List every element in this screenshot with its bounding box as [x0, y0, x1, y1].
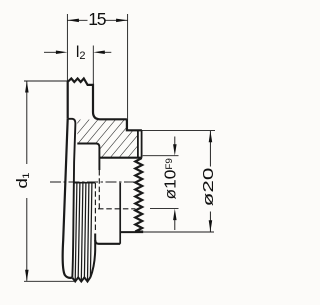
svg-text:15: 15: [88, 9, 106, 29]
l2 right arrow tail: [104, 51, 112, 53]
dia20 arrow down: [209, 220, 213, 232]
15 dimension line left segment: [67, 19, 87, 21]
skirt inner right edge: [90, 234, 95, 278]
dia10F9 top extension line: [143, 155, 179, 157]
d1 dimension line upper segment: [26, 82, 28, 165]
d1 arrow down: [25, 270, 29, 282]
flange front-left step and inner grip contour: [68, 119, 76, 277]
hatch bottom edge with corner to bore wall: [77, 144, 99, 171]
15 arrow left: [67, 19, 79, 23]
thread zone right line / part right face: [141, 130, 143, 157]
knurl tooth profile at bottom silhouette: [72, 277, 90, 281]
dia20 dim line upper segment: [209, 131, 211, 167]
hidden bore bottom edge: [98, 208, 136, 210]
15 dimension line right segment: [106, 19, 128, 21]
svg-text:ø20: ø20: [200, 168, 216, 207]
l2 left arrow: [56, 51, 68, 55]
dia20 top extension line: [142, 129, 215, 131]
thread profile zigzag on boss (view half): [135, 158, 143, 232]
step to dia20 boss top edge: [127, 119, 142, 130]
knurl band top edge: [74, 182, 96, 184]
skirt right face edge (view half): [119, 183, 121, 244]
dia10F9 lower arrow pointing up: [173, 209, 177, 221]
15 arrow right: [116, 19, 128, 23]
thread zone left line in section: [137, 130, 139, 157]
centerline of axis: [50, 181, 135, 183]
dia10F9 bottom extension line: [150, 208, 179, 210]
skirt bottom face: [95, 240, 120, 244]
15 right extension line: [127, 14, 129, 130]
knurl lines on grip surface: [75, 183, 92, 281]
l2 left arrow tail: [44, 51, 57, 53]
hidden skirt inner wall: [94, 183, 96, 232]
dia20 dim line lower segment: [209, 212, 211, 232]
dia20 bottom extension line: [143, 231, 214, 233]
d1 arrow up: [25, 81, 29, 93]
grip outer left silhouette with bottom corner: [63, 119, 73, 278]
dia10F9 dim line upper tail: [174, 137, 176, 147]
dia10F9 dim line lower tail: [174, 218, 176, 230]
d1 top extension line: [24, 80, 68, 82]
dia20 arrow up: [209, 131, 213, 143]
hub with knurled top edge (l2 zone) and fillet to flange top: [68, 79, 127, 120]
d1 dimension line lower segment: [26, 198, 28, 281]
l2 right extension line: [92, 46, 94, 88]
hidden bore wall: [98, 170, 100, 209]
step ledge under thread: [120, 231, 143, 233]
bore top edge (section): [99, 157, 141, 159]
l2 right arrow: [93, 51, 105, 55]
d1 bottom extension line: [24, 280, 74, 282]
left extension line (15 and l2): [66, 14, 68, 81]
dia10F9 upper arrow pointing down: [173, 144, 177, 156]
